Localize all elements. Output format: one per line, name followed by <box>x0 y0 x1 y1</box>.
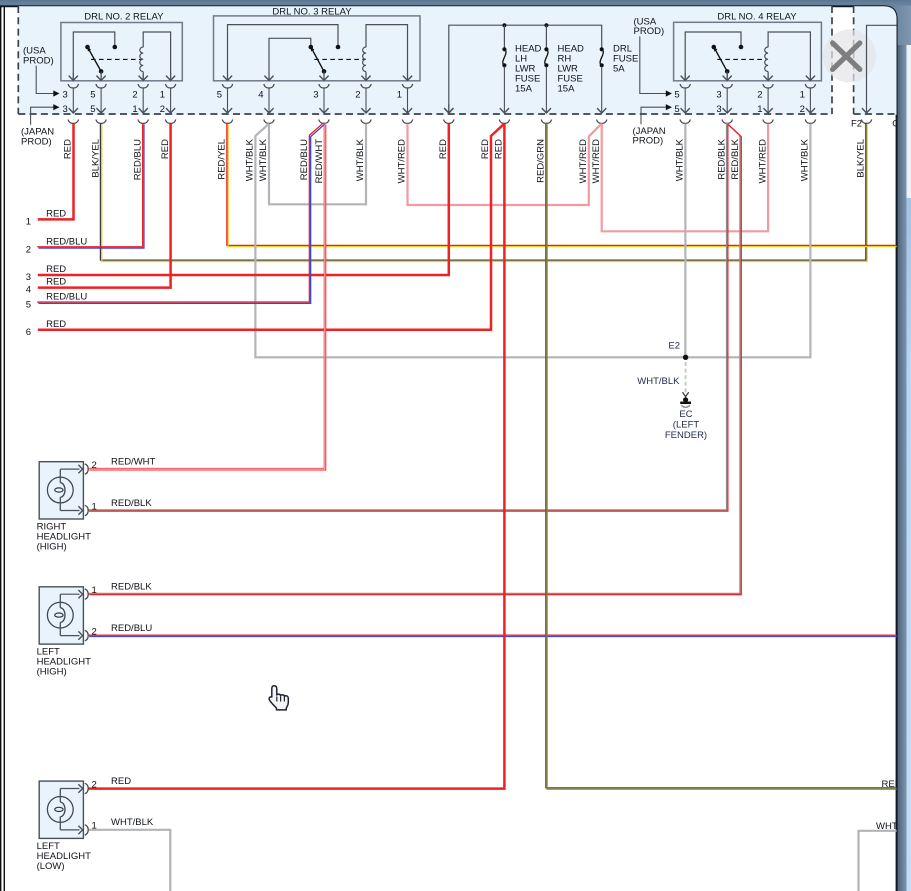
svg-text:RED/YEL: RED/YEL <box>217 139 228 180</box>
svg-text:(LEFT: (LEFT <box>673 420 700 431</box>
svg-text:DRL NO. 4 RELAY: DRL NO. 4 RELAY <box>717 11 797 22</box>
svg-text:EC: EC <box>679 409 692 420</box>
svg-text:RED/BLU: RED/BLU <box>46 236 87 247</box>
svg-text:3: 3 <box>716 90 721 101</box>
svg-text:2: 2 <box>160 104 165 115</box>
svg-text:RED/BLK: RED/BLK <box>730 138 741 179</box>
svg-text:DRL NO. 2 RELAY: DRL NO. 2 RELAY <box>84 12 164 23</box>
svg-text:(LOW): (LOW) <box>37 861 65 872</box>
svg-text:RED: RED <box>480 139 491 159</box>
svg-text:WHT/BLK: WHT/BLK <box>355 138 366 181</box>
svg-text:WHT/RED: WHT/RED <box>578 139 589 183</box>
svg-text:1: 1 <box>757 104 762 115</box>
svg-text:BLK/YEL: BLK/YEL <box>90 139 101 178</box>
svg-text:RED/BLK: RED/BLK <box>111 498 152 509</box>
svg-text:RED: RED <box>46 277 66 288</box>
svg-text:WHT/BLK: WHT/BLK <box>111 817 154 828</box>
svg-text:1: 1 <box>26 216 31 227</box>
svg-text:5: 5 <box>674 104 679 115</box>
svg-text:RED: RED <box>111 776 131 787</box>
svg-text:PROD): PROD) <box>21 136 52 147</box>
svg-text:3: 3 <box>26 272 31 283</box>
svg-text:WHT/RED: WHT/RED <box>757 139 768 183</box>
svg-text:1: 1 <box>800 90 805 101</box>
svg-text:15A: 15A <box>558 83 576 94</box>
svg-text:5: 5 <box>217 90 222 101</box>
svg-text:RED: RED <box>63 139 74 159</box>
svg-text:5: 5 <box>90 104 95 115</box>
svg-text:WHT/BLK: WHT/BLK <box>800 138 811 181</box>
svg-text:RED: RED <box>46 264 66 275</box>
svg-text:RED: RED <box>438 139 449 159</box>
svg-text:RED/BLK: RED/BLK <box>111 582 152 593</box>
svg-text:5: 5 <box>90 90 95 101</box>
svg-text:2: 2 <box>800 104 805 115</box>
svg-text:BLK/YEL: BLK/YEL <box>856 139 867 178</box>
svg-text:5A: 5A <box>613 63 625 74</box>
svg-text:1: 1 <box>92 821 97 832</box>
svg-text:RED/WHT: RED/WHT <box>314 139 325 184</box>
svg-text:4: 4 <box>26 285 31 296</box>
svg-text:RED/GRN: RED/GRN <box>536 139 547 183</box>
svg-text:3: 3 <box>716 104 721 115</box>
svg-text:RED: RED <box>494 139 505 159</box>
svg-text:2: 2 <box>92 460 97 471</box>
svg-text:WHT/BLK: WHT/BLK <box>258 138 269 181</box>
svg-text:3: 3 <box>63 90 68 101</box>
svg-text:WHT/RED: WHT/RED <box>591 139 602 183</box>
svg-text:5: 5 <box>674 90 679 101</box>
svg-text:3: 3 <box>313 90 318 101</box>
svg-text:RED: RED <box>160 139 171 159</box>
svg-text:PROD): PROD) <box>23 55 54 66</box>
svg-text:1: 1 <box>397 90 402 101</box>
svg-text:RED: RED <box>46 208 66 219</box>
svg-text:WHT/BLK: WHT/BLK <box>245 138 256 181</box>
svg-text:PROD): PROD) <box>634 26 665 37</box>
svg-text:2: 2 <box>92 779 97 790</box>
svg-text:(HIGH): (HIGH) <box>37 542 67 553</box>
svg-text:1: 1 <box>132 104 137 115</box>
svg-text:2: 2 <box>355 90 360 101</box>
svg-text:1: 1 <box>92 501 97 512</box>
svg-text:6: 6 <box>26 327 31 338</box>
svg-text:RED/BLU: RED/BLU <box>46 292 87 303</box>
svg-text:FENDER): FENDER) <box>665 430 707 441</box>
svg-text:F2: F2 <box>851 119 862 130</box>
svg-text:(HIGH): (HIGH) <box>37 667 67 678</box>
svg-text:RED/BLK: RED/BLK <box>716 138 727 179</box>
svg-text:1: 1 <box>160 90 165 101</box>
svg-text:E2: E2 <box>668 341 680 352</box>
svg-text:RED/WHT: RED/WHT <box>111 456 156 467</box>
svg-text:DRL NO. 3 RELAY: DRL NO. 3 RELAY <box>272 6 352 17</box>
svg-text:WHT/BLK: WHT/BLK <box>675 138 686 181</box>
svg-text:WHT/RED: WHT/RED <box>397 139 408 183</box>
svg-text:2: 2 <box>92 626 97 637</box>
svg-text:2: 2 <box>132 90 137 101</box>
svg-text:RED: RED <box>46 319 66 330</box>
svg-text:RED/BLU: RED/BLU <box>133 139 144 180</box>
svg-text:PROD): PROD) <box>633 136 664 147</box>
svg-text:RED/BLU: RED/BLU <box>299 139 310 180</box>
svg-text:2: 2 <box>26 244 31 255</box>
svg-text:2: 2 <box>757 90 762 101</box>
svg-text:15A: 15A <box>515 83 533 94</box>
svg-text:5: 5 <box>26 300 31 311</box>
svg-text:4: 4 <box>258 90 263 101</box>
svg-text:RED/BLU: RED/BLU <box>111 623 152 634</box>
svg-text:1: 1 <box>92 585 97 596</box>
svg-text:WHT/BLK: WHT/BLK <box>637 376 680 387</box>
svg-text:3: 3 <box>63 104 68 115</box>
